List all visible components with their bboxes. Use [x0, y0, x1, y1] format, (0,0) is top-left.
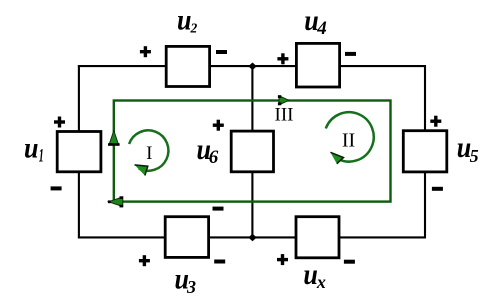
- polarity - of u3: [214, 260, 225, 264]
- svg-text:u: u: [24, 131, 39, 164]
- polarity - of u2: [216, 50, 227, 54]
- loop I arc: [129, 130, 168, 170]
- svg-text:2: 2: [190, 21, 198, 36]
- wire: bottom horizontal: [78, 236, 426, 238]
- element box ux: [296, 217, 339, 258]
- loop II arc: [326, 112, 374, 161]
- wire: left vertical: [78, 65, 80, 238]
- svg-text:u: u: [303, 258, 318, 291]
- polarity - of ux: [344, 260, 355, 264]
- loop III green rectangle: [114, 101, 391, 202]
- element box u4: [296, 43, 339, 87]
- polarity - of u1: [51, 186, 62, 190]
- loop II arrowhead: [330, 152, 343, 164]
- polarity + of u6: [213, 120, 224, 131]
- polarity + of u4: [277, 53, 288, 64]
- loop III arrow up (left edge): [108, 131, 120, 146]
- svg-text:I: I: [146, 143, 152, 164]
- svg-text:4: 4: [316, 18, 327, 39]
- junction node top: [248, 63, 256, 71]
- element box u5: [403, 131, 447, 172]
- polarity + of u5: [430, 116, 441, 127]
- polarity + of u1: [54, 117, 65, 128]
- svg-text:x: x: [316, 272, 326, 292]
- element box u1: [57, 132, 101, 172]
- polarity - of u6: [213, 207, 224, 211]
- svg-text:u: u: [177, 4, 192, 37]
- polarity + of u3: [139, 255, 150, 266]
- loop I arrowhead edge: [135, 165, 148, 176]
- loop I arrowhead: [135, 165, 148, 176]
- svg-text:1: 1: [39, 145, 44, 166]
- polarity + of ux: [277, 254, 288, 265]
- svg-text:5: 5: [470, 146, 479, 166]
- svg-text:6: 6: [209, 147, 219, 168]
- svg-text:II: II: [342, 129, 355, 151]
- element box u3: [165, 217, 208, 258]
- svg-text:III: III: [275, 104, 294, 125]
- wire: middle vertical branch: [251, 66, 253, 237]
- loop II arrowhead edge: [330, 152, 343, 164]
- polarity + of u2: [140, 46, 151, 57]
- svg-text:3: 3: [186, 277, 196, 297]
- wire: top horizontal: [78, 65, 426, 67]
- loop III arrow left (bottom-left corner): [108, 196, 123, 207]
- element box u2: [166, 46, 209, 86]
- polarity - of u5: [432, 187, 443, 191]
- junction node bottom: [248, 234, 256, 242]
- polarity - of u4: [345, 52, 356, 56]
- wire: right vertical: [424, 65, 426, 238]
- element box u6: [231, 131, 273, 172]
- loop III arrow right (top edge): [278, 95, 289, 105]
